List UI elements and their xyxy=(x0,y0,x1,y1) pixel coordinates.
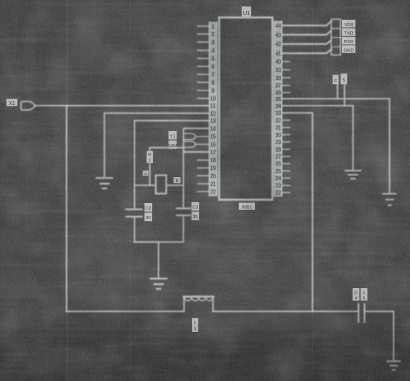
IC U1 body xyxy=(219,17,273,199)
merge fork into pin14 xyxy=(184,134,210,140)
left pin stubs xyxy=(198,26,210,191)
resistor R1 body xyxy=(147,151,153,163)
center tap to ground G2 xyxy=(158,242,160,278)
wire left vertical to bottom rail xyxy=(66,106,68,312)
ground G3 xyxy=(387,361,400,370)
ground G2 xyxy=(151,279,167,289)
resistor R1 leads xyxy=(150,148,184,186)
wire below CL xyxy=(134,217,136,242)
wire pin R9 to right vertical and ground G5 xyxy=(282,99,390,193)
wire pin R10 to ground G4 xyxy=(282,106,353,170)
wires to top-right connector xyxy=(282,21,332,53)
capacitor CR plates xyxy=(177,208,190,215)
small box near crystal right xyxy=(174,177,181,183)
ground G4 xyxy=(345,171,360,179)
bottom rail left xyxy=(67,310,185,312)
label U1 xyxy=(242,6,251,17)
label boxes (bright with dark glyphs) xyxy=(6,6,367,332)
capacitor C5 plates (top right) xyxy=(338,84,345,106)
wire below CR xyxy=(182,215,184,242)
connector X1 plug xyxy=(21,101,36,110)
crystal Y1 xyxy=(156,175,166,193)
pin number digits xyxy=(210,24,281,197)
label part number xyxy=(239,203,255,210)
ground G5 xyxy=(383,194,396,205)
center glow / corner shading xyxy=(0,0,1,1)
inductor L1 xyxy=(184,297,213,311)
left pin ladder of U1 xyxy=(209,22,216,195)
loop bottom wire xyxy=(135,241,184,243)
wire connector X1 to pin xyxy=(35,105,210,107)
capacitor CL labels xyxy=(145,203,153,212)
right pin ladder of U1 xyxy=(275,22,282,197)
label X1 xyxy=(6,99,17,107)
bottom rail right xyxy=(365,311,394,361)
ground G1 xyxy=(97,178,113,188)
right branch down to CR xyxy=(182,151,184,208)
scan fold streaks xyxy=(67,0,68,381)
inductor L1 label xyxy=(192,318,198,332)
bottom rail mid xyxy=(213,310,358,312)
capacitor CR labels xyxy=(192,202,200,211)
crystal labels Y1 xyxy=(169,131,177,139)
capacitor C4 plates (series in rail) xyxy=(359,304,365,322)
capacitor CL plates xyxy=(126,209,142,216)
vignettes xyxy=(0,300,410,381)
small box near crystal left xyxy=(143,171,149,176)
crystal leads xyxy=(135,184,184,186)
wire pin13 corner xyxy=(184,128,210,152)
right pin stubs xyxy=(282,62,290,193)
connector J1 net labels xyxy=(342,20,355,28)
capacitor C5 labels xyxy=(333,75,339,84)
wire pin12 to crystal loop top xyxy=(135,121,210,209)
wire pin11 to ground G1 xyxy=(104,113,209,177)
wire pin R11 down to rail xyxy=(282,113,313,312)
capacitor C4 labels xyxy=(353,288,360,301)
merge fork into pin15 xyxy=(184,141,210,147)
connector J1 body xyxy=(331,19,340,55)
